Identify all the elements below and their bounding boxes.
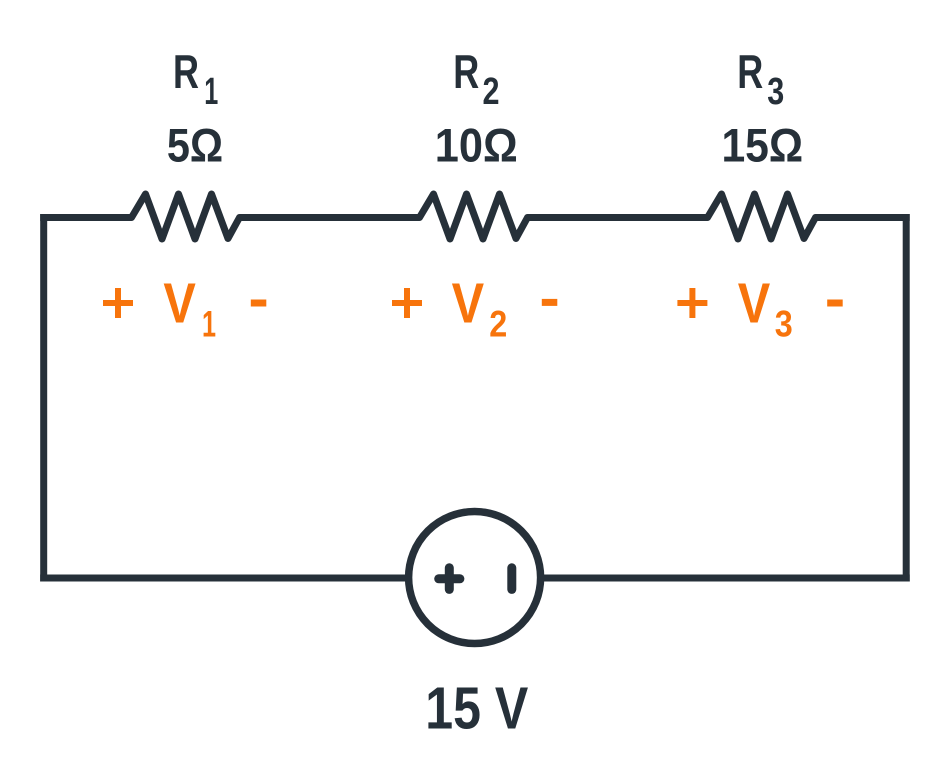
svg-text:R: R	[173, 45, 199, 98]
svg-text:R: R	[453, 45, 479, 98]
svg-text:V: V	[452, 272, 485, 336]
wire bottom	[40, 575, 910, 582]
label V2	[452, 272, 508, 345]
label V1	[163, 272, 216, 345]
wire top segment 4	[816, 214, 910, 221]
svg-text:2: 2	[489, 303, 507, 345]
label V3	[738, 272, 793, 345]
label R1	[173, 45, 218, 113]
wire left vertical	[40, 214, 47, 582]
node V1 polarity plus	[103, 288, 133, 318]
label R2	[453, 45, 499, 113]
node V3 polarity plus	[677, 288, 707, 318]
source minus terminal	[507, 568, 516, 590]
source plus terminal	[439, 568, 460, 590]
svg-text:1: 1	[202, 303, 216, 345]
resistor R2	[413, 194, 534, 239]
node V3 polarity minus	[827, 300, 843, 307]
svg-text:10Ω: 10Ω	[435, 119, 518, 172]
svg-text:2: 2	[483, 71, 500, 113]
wire right vertical	[903, 214, 910, 582]
svg-text:3: 3	[767, 71, 784, 113]
svg-text:R: R	[737, 45, 763, 98]
svg-text:5Ω: 5Ω	[167, 119, 223, 172]
wire top segment 1	[40, 214, 131, 221]
voltage source V (15 V)	[409, 512, 541, 644]
resistor R3	[701, 194, 822, 239]
wire top segment 3	[528, 214, 708, 221]
node V2 polarity minus	[542, 299, 558, 306]
svg-text:15 V: 15 V	[425, 674, 528, 741]
svg-text:1: 1	[204, 71, 218, 113]
wire top segment 2	[240, 214, 420, 221]
node V1 polarity minus	[251, 300, 266, 307]
label R3	[737, 45, 784, 113]
svg-text:3: 3	[775, 303, 793, 345]
svg-text:V: V	[738, 272, 771, 336]
resistor R1	[125, 194, 246, 239]
svg-text:V: V	[163, 272, 196, 336]
svg-text:15Ω: 15Ω	[721, 119, 803, 172]
node V2 polarity plus	[392, 288, 422, 318]
